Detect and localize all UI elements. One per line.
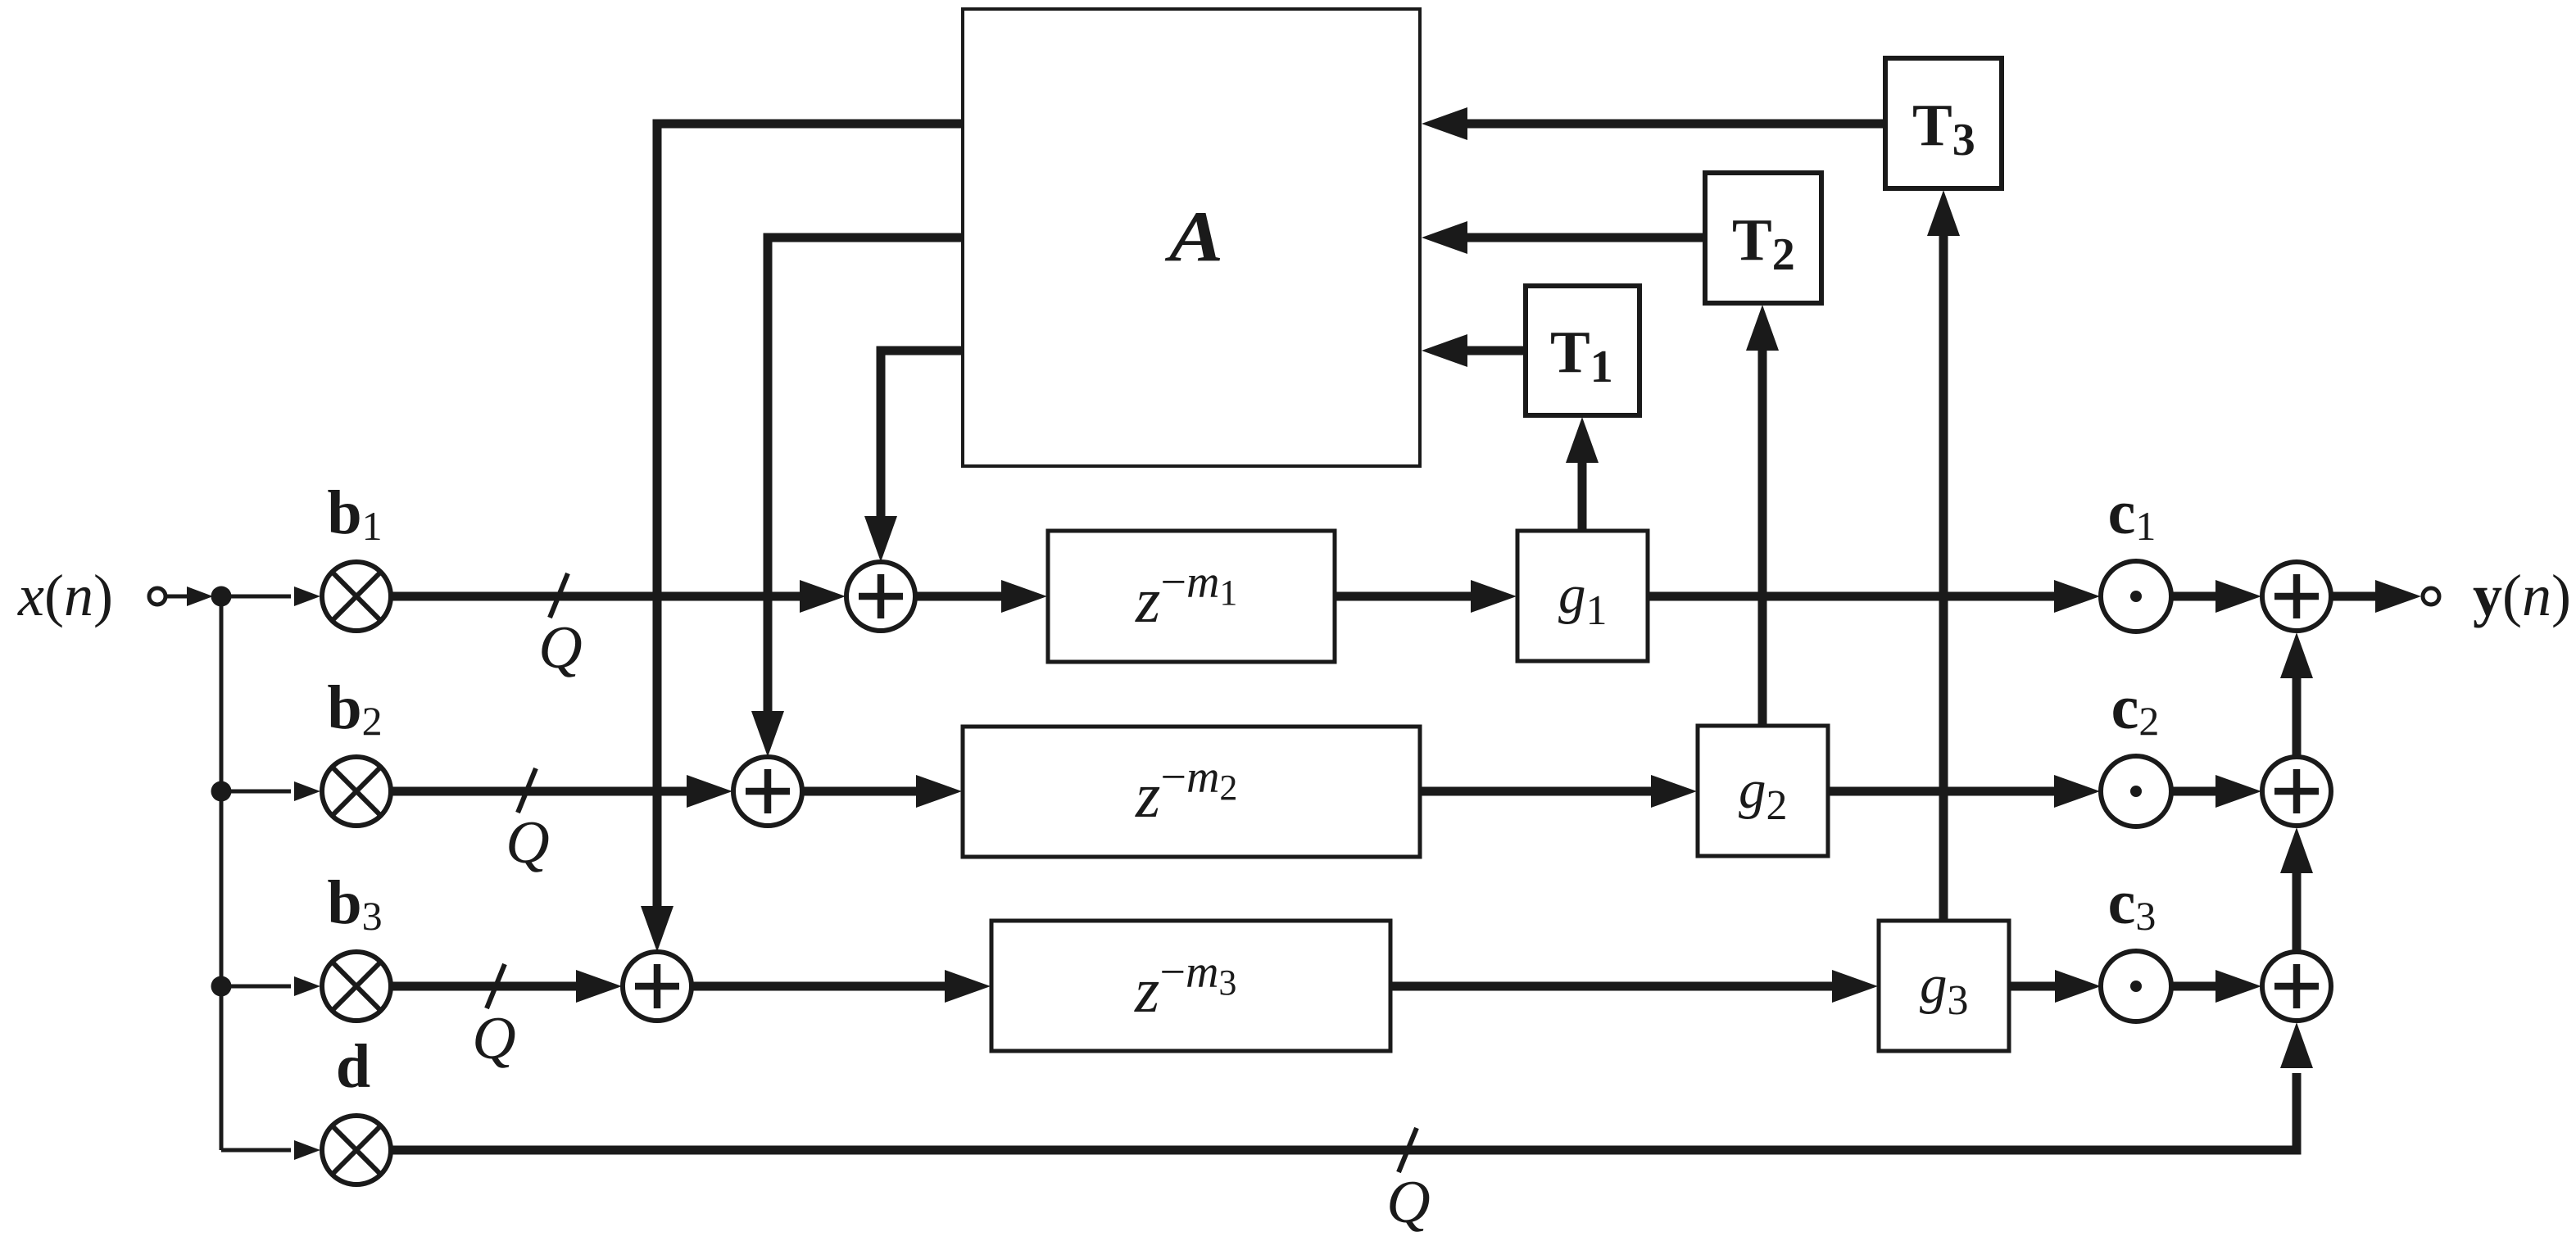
svg-text:A: A [1165, 197, 1224, 276]
svg-text:d: d [336, 1032, 370, 1101]
svg-text:Q: Q [506, 809, 549, 876]
svg-text:x(n): x(n) [17, 563, 113, 628]
svg-text:Q: Q [472, 1005, 515, 1072]
svg-text:y(n): y(n) [2473, 563, 2571, 628]
svg-text:Q: Q [538, 614, 582, 682]
svg-text:Q: Q [1386, 1169, 1430, 1236]
